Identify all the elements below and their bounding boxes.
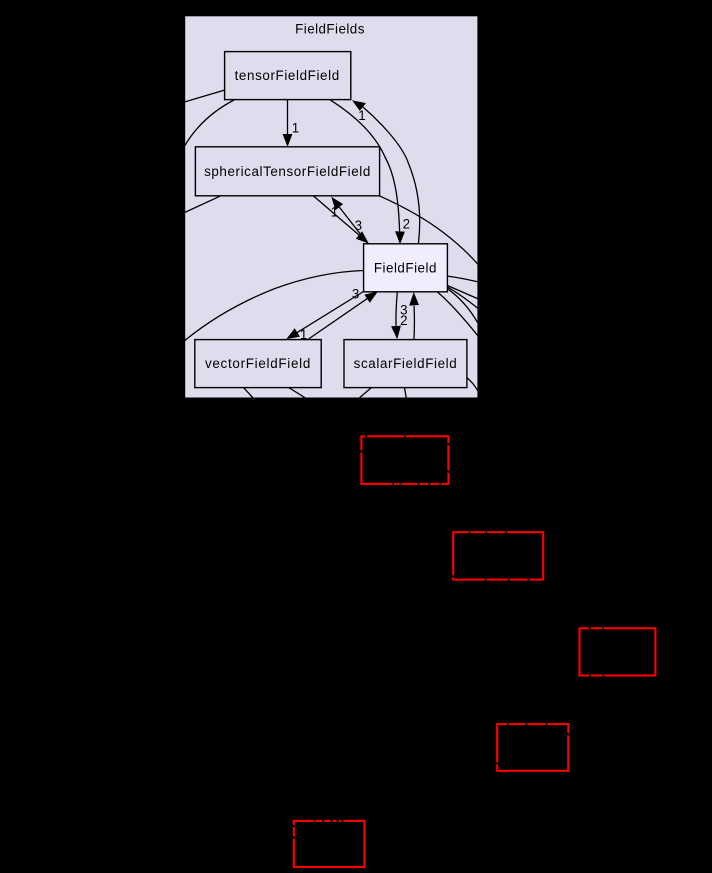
svg-text:2: 2 (400, 313, 407, 328)
cluster FieldFields (185, 16, 477, 397)
edge vectorFieldField->FieldField label 3 (308, 287, 378, 340)
edge FieldField->right-out f5 (438, 292, 479, 336)
edge sphericalTensorFieldField->FieldField label 3 (314, 196, 369, 244)
edge sphericalTensorFieldField->right-out arc (380, 196, 478, 264)
invisible black edges crossing red borders (notches) (287, 430, 604, 839)
node red truncated box R5 (294, 821, 365, 867)
node red truncated box R2 (453, 532, 543, 579)
edge FieldField->right-out f3 (448, 287, 479, 309)
svg-text:3: 3 (352, 287, 359, 302)
node red truncated box R4 (497, 724, 568, 771)
svg-text:1: 1 (292, 121, 299, 136)
svg-text:2: 2 (403, 217, 410, 232)
edge scalarFieldField->bottom-out left (358, 388, 371, 399)
edge FieldField->right-out f1 (448, 276, 479, 282)
edge tensorFieldField->FieldField label 2 (330, 100, 410, 245)
edge FieldField->right-out f2 (448, 286, 479, 299)
edge vectorFieldField->bottom-out 1 (244, 388, 255, 399)
edge tensorFieldField->left-out straight (184, 90, 225, 102)
edge scalarFieldField->right-out (467, 378, 479, 393)
svg-text:FieldField: FieldField (374, 260, 437, 275)
edge vectorFieldField->bottom-out 2 (289, 388, 307, 399)
edge tensorFieldField->sphericalTensorFieldField label 1 (283, 100, 300, 147)
node vectorFieldField (195, 340, 321, 388)
svg-text:1: 1 (331, 205, 338, 220)
edge FieldField->scalarFieldField labels 3 2 (391, 292, 407, 339)
node FieldField (current dir) (364, 244, 448, 292)
svg-text:tensorFieldField: tensorFieldField (235, 68, 340, 83)
edge tensorFieldField->left-out arc (184, 100, 234, 147)
edge sphericalTensorFieldField->left-out (184, 196, 221, 213)
node red truncated box R1 (361, 436, 448, 484)
node red truncated box R3 (580, 628, 656, 675)
edge scalarFieldField->bottom-out vertical (404, 388, 406, 399)
node scalarFieldField (344, 340, 467, 388)
svg-text:sphericalTensorFieldField: sphericalTensorFieldField (204, 164, 371, 179)
svg-text:scalarFieldField: scalarFieldField (354, 356, 458, 371)
edge FieldField->vectorFieldField label 1 (286, 292, 363, 343)
edge scalarFieldField->FieldField (409, 292, 419, 340)
edge FieldField->tensorFieldField label 1 (352, 100, 420, 243)
node tensorFieldField (225, 52, 351, 100)
edge FieldField->sphericalTensorFieldField label 1 (331, 197, 368, 244)
node sphericalTensorFieldField (195, 147, 379, 196)
svg-text:vectorFieldField: vectorFieldField (205, 356, 311, 371)
edge FieldField->right-out f4 (448, 289, 479, 324)
edge FieldField->left-out long arc (184, 271, 364, 342)
svg-text:FieldFields: FieldFields (295, 21, 365, 36)
svg-text:1: 1 (358, 108, 365, 123)
